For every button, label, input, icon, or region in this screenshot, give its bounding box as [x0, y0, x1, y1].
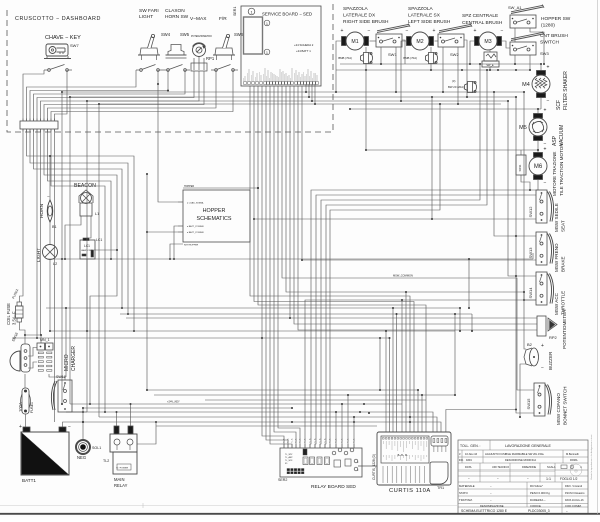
- contact SW5: [163, 65, 190, 72]
- wire RP2 potentiometer trio: [290, 86, 537, 330]
- microswitch SW3 central brush: [510, 32, 568, 56]
- svg-text:M4: M4: [522, 82, 530, 88]
- svg-text:SCHEMATICS: SCHEMATICS: [197, 216, 232, 222]
- microswitch SW15 bonnet: [526, 383, 568, 425]
- svg-text:STATO: STATO: [459, 491, 469, 495]
- svg-text:LEFT SIDE BRUSH: LEFT SIDE BRUSH: [408, 19, 451, 25]
- svg-text:+24 BATT 1: +24 BATT 1: [296, 49, 311, 53]
- wire ladder rung y200: [320, 63, 481, 448]
- svg-text:SWITCH: SWITCH: [540, 40, 559, 46]
- label central brush: [462, 13, 503, 26]
- wire M1 leads: [335, 41, 376, 93]
- wires curtis top signal pins from above: [385, 291, 423, 432]
- svg-text:V−MAX: V−MAX: [190, 16, 207, 22]
- svg-text:SW_E: SW_E: [486, 63, 494, 67]
- svg-text:RELAY: RELAY: [114, 483, 128, 488]
- svg-text:CENTRAL BRUSH: CENTRAL BRUSH: [462, 20, 503, 26]
- label left side brush: [408, 6, 451, 25]
- svg-text:NEG: NEG: [77, 455, 86, 460]
- wire lamp L2 down: [49, 260, 51, 333]
- wire SW3 terminals: [514, 55, 531, 71]
- breaker SW11 for traction: [516, 155, 526, 175]
- bus wires y=92..104 dashboard to right side: [62, 92, 524, 104]
- service board short pin stubs to buses: [305, 85, 316, 106]
- svg-text:TL2: TL2: [103, 459, 109, 463]
- wire beacon leads: [64, 216, 91, 331]
- svg-text:SPZ CENTRALE: SPZ CENTRALE: [462, 13, 498, 19]
- svg-text:1:1: 1:1: [546, 477, 551, 481]
- svg-text:▸ LOAD_SIGNAL: ▸ LOAD_SIGNAL: [187, 202, 205, 205]
- svg-text:B2: B2: [527, 342, 533, 347]
- svg-text:CRUSCOTTO − DASHBOARD: CRUSCOTTO − DASHBOARD: [15, 16, 101, 22]
- breaker BMB(70A) for M2: [403, 52, 437, 63]
- label right side brush: [343, 6, 389, 25]
- svg-text:SW12: SW12: [528, 206, 533, 218]
- battery BATT1: [19, 424, 71, 483]
- svg-text:(3): (3): [452, 79, 455, 83]
- dashboard boundary (dashed): [7, 0, 333, 132]
- wire SW11 stubs: [521, 150, 531, 191]
- beacon L1: [74, 183, 99, 216]
- svg-text:DATA: DATA: [466, 459, 472, 462]
- svg-text:TL_ASP: TL_ASP: [285, 456, 293, 459]
- microswitch SW18 (charger): [51, 375, 72, 412]
- svg-text:SW3: SW3: [540, 51, 549, 56]
- wire M2 leads: [400, 41, 438, 102]
- service board pin bundle descending: [250, 86, 426, 448]
- svg-text:TR1: TR1: [437, 486, 444, 490]
- microswitch SW14 throttle: [528, 272, 566, 315]
- svg-text:+: +: [547, 65, 550, 71]
- svg-text:+: +: [341, 28, 344, 34]
- svg-text:F/R: F/R: [219, 16, 227, 22]
- svg-text:−: −: [68, 424, 71, 430]
- svg-text:SEAT: SEAT: [561, 220, 566, 232]
- motor controller TR1 (CURTIS 110A): [372, 432, 451, 494]
- svg-text:HOPPER SW: HOPPER SW: [541, 16, 571, 22]
- wire SW18 bottom to junction: [66, 411, 84, 413]
- wire right verticals to microswitches: [493, 91, 536, 413]
- wire horn connections: [49, 155, 51, 245]
- svg-text:M2: M2: [416, 39, 423, 45]
- svg-text:SCF: SCF: [556, 100, 562, 110]
- svg-text:DENOMINAZIONE: DENOMINAZIONE: [480, 504, 504, 508]
- wire M3 leads: [469, 41, 510, 65]
- svg-text:SCALA: SCALA: [547, 465, 556, 469]
- microswitch SW12 seat: [528, 190, 566, 232]
- connector MN_S: [37, 338, 53, 371]
- curtis power feed wires B+ B- M-: [66, 403, 517, 432]
- motor M2 left side brush: [406, 28, 436, 50]
- push button SW5 (horn): [165, 8, 190, 58]
- svg-text:L1: L1: [95, 212, 99, 216]
- wire buzzer minus to bus: [519, 364, 526, 418]
- svg-text:POTENTIOMETER: POTENTIOMETER: [562, 309, 567, 349]
- svg-text:MICRO: MICRO: [64, 354, 70, 371]
- svg-text:MSW ACC: MSW ACC: [554, 292, 559, 315]
- wire breaker M1 to bus: [365, 47, 367, 71]
- horn B1: [39, 194, 57, 229]
- bus wires y=64,70 brush motors: [336, 64, 541, 71]
- svg-text:−: −: [468, 477, 470, 481]
- svg-text:DESCRIZIONE MODIFICA: DESCRIZIONE MODIFICA: [505, 458, 536, 462]
- svg-text:SW_A1: SW_A1: [508, 5, 522, 10]
- wire buzzer feed: [286, 86, 526, 349]
- svg-text:BW 20 (20A): BW 20 (20A): [448, 85, 464, 89]
- wire M4 filter shaker leads: [540, 63, 542, 109]
- svg-text:SW11: SW11: [518, 164, 522, 171]
- wire M6 bottom bus y=190 to relay board: [310, 180, 538, 448]
- service board SER1 (SERVICE BOARD - SED): [233, 6, 321, 86]
- svg-text:IND.: IND.: [459, 459, 464, 462]
- svg-text:L2: L2: [53, 262, 57, 266]
- toggle switch SW4 (lights): [138, 8, 171, 60]
- svg-text:+: +: [544, 147, 547, 153]
- contact SW4: [136, 65, 163, 72]
- svg-text:PLDC03005_3: PLDC03005_3: [528, 509, 550, 513]
- dashboard connector CN1: [20, 119, 58, 132]
- microswitch hopper SW_A1: [508, 5, 571, 29]
- svg-text:CLAXON: CLAXON: [165, 8, 185, 14]
- svg-text:1: 1: [250, 11, 252, 15]
- svg-text:1: 1: [266, 51, 268, 55]
- wires relay board top pins from buses: [335, 394, 355, 448]
- svg-text:LATERALE SX: LATERALE SX: [408, 13, 441, 19]
- svg-text:SER1: SER1: [233, 7, 237, 16]
- svg-text:SW14: SW14: [528, 287, 533, 299]
- wire SW16 to MN_S: [28, 348, 37, 369]
- svg-text:B+ B− M−: B+ B− M−: [398, 454, 409, 457]
- svg-text:HOPPER: HOPPER: [203, 208, 226, 214]
- svg-text:+: +: [19, 424, 22, 430]
- label MOTORE TRAZIONE / TRACTION MOTOR: [552, 143, 564, 196]
- fuse FUSE1 100A: [18, 388, 34, 414]
- svg-text:TL_SCF: TL_SCF: [285, 460, 293, 462]
- svg-text:DATA 10-Nov-16: DATA 10-Nov-16: [565, 499, 584, 502]
- contact SW6: [211, 65, 238, 72]
- svg-text:SOL1: SOL1: [92, 446, 101, 450]
- breaker BW20(20A): [448, 79, 477, 93]
- svg-text:DUREZZA.−: DUREZZA.−: [530, 498, 546, 502]
- svg-text:ASP: ASP: [552, 135, 558, 146]
- potentiometer RP1 (V-MAX): [190, 16, 215, 71]
- svg-text:M1: M1: [351, 39, 358, 45]
- solenoid SOL1 / NEG terminal: [76, 440, 101, 460]
- svg-text:BONNET SWITCH: BONNET SWITCH: [563, 387, 568, 425]
- svg-text:KEY/HOPPER: KEY/HOPPER: [184, 245, 199, 247]
- wire bundle dashboard switches to connector: [27, 70, 234, 121]
- svg-text:(1280): (1280): [541, 23, 555, 29]
- wire battery minus to SOL1: [63, 421, 85, 440]
- svg-text:−: −: [47, 194, 50, 199]
- wire SW13 bottom to bundle: [301, 259, 536, 261]
- wire junction to MN_1: [25, 334, 42, 343]
- svg-text:−: −: [501, 28, 504, 34]
- microswitch SW13 brake: [528, 232, 566, 272]
- svg-text:MATERIALE: MATERIALE: [459, 484, 475, 488]
- svg-text:BMB (70A): BMB (70A): [338, 56, 352, 60]
- svg-text:MAIN: MAIN: [114, 477, 124, 482]
- wire fuse1 to battery: [25, 414, 27, 427]
- main relay TL2: [103, 426, 137, 488]
- wire TL2 relay posts: [115, 403, 157, 444]
- svg-text:VACUUM: VACUUM: [559, 125, 565, 146]
- svg-text:MOTORE TRAZIONE: MOTORE TRAZIONE: [552, 152, 557, 197]
- svg-text:CURTIS_1228 (D): CURTIS_1228 (D): [372, 454, 376, 480]
- svg-text:HOPPER: HOPPER: [184, 185, 194, 188]
- svg-text:▸ BATT_POWER: ▸ BATT_POWER: [187, 231, 204, 234]
- long bus wires mid page: [12, 253, 533, 391]
- svg-text:SW7: SW7: [70, 43, 79, 48]
- svg-text:RELAY BOARD SED: RELAY BOARD SED: [311, 484, 356, 490]
- contact SW7: [44, 65, 72, 72]
- svg-text:SPAZZOLA: SPAZZOLA: [343, 6, 369, 12]
- svg-text:M5: M5: [519, 125, 527, 131]
- svg-text:CODICE: CODICE: [530, 504, 541, 508]
- wire claxon common down to hopper load_signal: [157, 70, 178, 202]
- svg-text:FIRMA: FIRMA: [570, 459, 578, 462]
- svg-text:TL−POWER: TL−POWER: [116, 468, 129, 470]
- wire SW14 bottom to relay board: [305, 300, 536, 448]
- wire ladder rung SW12 top: [315, 195, 536, 448]
- wire long verticals left-mid: [61, 91, 148, 417]
- svg-text:DIREZIONE: DIREZIONE: [522, 465, 536, 469]
- wire key switch to connector: [23, 70, 67, 121]
- svg-text:COIL FUSE: COIL FUSE: [6, 303, 11, 325]
- lamp L2 (light): [36, 245, 58, 267]
- wire SW16 bottom to fuse1: [24, 374, 26, 388]
- motor M6 traction: [529, 147, 547, 187]
- svg-text:+: +: [474, 28, 477, 34]
- svg-text:10-Nov-16: 10-Nov-16: [465, 452, 478, 456]
- motor M4 filter shaker: [522, 65, 550, 105]
- svg-text:LIGHT: LIGHT: [139, 14, 153, 20]
- svg-text:▸ BATT_POWER: ▸ BATT_POWER: [187, 225, 204, 228]
- bus y=109 M4 to M5: [349, 108, 541, 114]
- svg-text:POTENZIOMETRO: POTENZIOMETRO: [191, 35, 212, 38]
- svg-text:MSW COFANO: MSW COFANO: [556, 393, 561, 425]
- wire M5 bottom to bus y=150: [365, 70, 539, 153]
- key switch SW7 pictogram: [44, 35, 81, 59]
- svg-text:UFF.TECNICO: UFF.TECNICO: [492, 465, 509, 469]
- wire SW2 terminals: [442, 40, 468, 105]
- svg-text:MSW FRENO: MSW FRENO: [554, 243, 559, 272]
- svg-text:SCHEMA ELETTRICO 1280 E: SCHEMA ELETTRICO 1280 E: [461, 509, 508, 513]
- label MICRO CHARGER: [64, 346, 77, 371]
- microswitch SW2: [438, 24, 472, 57]
- wire LC1 right lead: [94, 249, 118, 251]
- svg-text:1: 1: [266, 22, 268, 26]
- wire SW1 terminals: [380, 40, 405, 93]
- svg-text:SW13: SW13: [528, 247, 533, 259]
- svg-text:RC’follow°: RC’follow°: [530, 484, 543, 488]
- svg-text:M3: M3: [484, 39, 491, 45]
- svg-text:+24 SCHEDA 2: +24 SCHEDA 2: [294, 43, 314, 47]
- svg-text:M.Beninelli: M.Beninelli: [566, 452, 579, 456]
- svg-text:−: −: [544, 181, 547, 187]
- wires right of curtis: [454, 258, 470, 396]
- svg-text:M6: M6: [534, 164, 543, 170]
- svg-text:BMB (70A): BMB (70A): [403, 56, 417, 60]
- svg-text:−: −: [527, 477, 529, 481]
- svg-text:◎: ◎: [574, 468, 578, 473]
- svg-text:COD.COMM.: COD.COMM.: [565, 504, 582, 508]
- svg-text:HORN: HORN: [39, 203, 45, 218]
- wire ladder rung y210: [330, 103, 441, 448]
- svg-text:TRATTAM.: TRATTAM.: [459, 498, 473, 502]
- svg-text:PESO 0.000 Kg: PESO 0.000 Kg: [530, 491, 550, 495]
- svg-text:RP2: RP2: [549, 335, 558, 340]
- wire hopper batt_power feeds: [146, 187, 259, 260]
- potentiometer RP2 (throttle): [537, 309, 567, 349]
- wire left bundle below connector: [20, 129, 136, 422]
- relay board top pins: [283, 438, 356, 448]
- svg-text:SW6: SW6: [234, 32, 244, 37]
- fuse FUSE2 coil fuse 3.5A-F: [6, 288, 23, 325]
- hopper schematics block: [178, 185, 250, 247]
- label ASP VACUUM: [552, 125, 565, 146]
- svg-text:AGGIUNTO FUSIBILE RIARMABILE S: AGGIUNTO FUSIBILE RIARMABILE SW 20L 15AL: [485, 452, 545, 456]
- wire SW_E to bus: [489, 50, 491, 71]
- switch SW16 charger interlock: [10, 332, 30, 372]
- motor M1 right side brush: [341, 28, 371, 50]
- wire ladder rung y205: [325, 69, 488, 448]
- svg-text:SW FARI: SW FARI: [139, 8, 159, 14]
- svg-text:FILTER SHAKER: FILTER SHAKER: [563, 71, 569, 110]
- wire MN_S to SW18 and fuse1: [49, 307, 67, 380]
- svg-text:SPAZZOLA: SPAZZOLA: [408, 6, 434, 12]
- title block: [458, 440, 588, 514]
- svg-text:TL_SPZ: TL_SPZ: [285, 454, 293, 456]
- wire fuse2 bottom to junction: [20, 322, 27, 344]
- toggle switch SW6 (F/R): [213, 16, 244, 60]
- svg-text:−: −: [406, 28, 409, 34]
- svg-text:+: +: [544, 108, 547, 114]
- svg-text:+: +: [433, 28, 436, 34]
- svg-text:Vietata la riproduzione e la d: Vietata la riproduzione e la divulgazion…: [590, 434, 593, 480]
- svg-text:SW5: SW5: [180, 32, 190, 37]
- svg-text:SER2: SER2: [278, 478, 287, 482]
- svg-text:MSW_COMMON: MSW_COMMON: [393, 274, 413, 278]
- svg-text:−: −: [541, 365, 544, 371]
- wire breaker M2 to bus: [430, 47, 432, 71]
- svg-text:MSW SEDILE: MSW SEDILE: [554, 203, 559, 232]
- svg-text:MN_1: MN_1: [40, 338, 50, 342]
- svg-text:SW4: SW4: [161, 32, 171, 37]
- breaker SW_E under M3: [482, 52, 499, 67]
- motor M3 central brush: [474, 28, 504, 50]
- svg-text:RP1: RP1: [206, 56, 215, 61]
- wire MSW_COMMON from service board to SW15: [282, 86, 534, 390]
- svg-text:−: −: [547, 99, 550, 105]
- svg-text:DATA: DATA: [465, 465, 472, 469]
- buzzer B2: [524, 342, 553, 371]
- svg-text:TOLL. GEN. :: TOLL. GEN. :: [460, 444, 481, 448]
- svg-text:BUZZER: BUZZER: [548, 351, 553, 370]
- svg-text:FOGLIO 1/2: FOGLIO 1/2: [560, 477, 578, 481]
- svg-text:BATT1: BATT1: [22, 478, 36, 483]
- breaker BMB(70A) for M1: [338, 52, 372, 63]
- svg-text:CHAVE − KEY: CHAVE − KEY: [45, 35, 81, 41]
- svg-text:RIGHT SIDE BRUSH: RIGHT SIDE BRUSH: [343, 19, 389, 25]
- svg-text:LAVORAZIONE GENERALE: LAVORAZIONE GENERALE: [505, 444, 551, 448]
- label SCF FILTER SHAKER: [556, 71, 569, 110]
- svg-text:−: −: [497, 477, 499, 481]
- wire hopper switch SW_A1: [515, 28, 545, 65]
- motor M5 vacuum: [519, 108, 547, 148]
- svg-text:CHARGER: CHARGER: [71, 346, 77, 371]
- svg-text:BRAKE: BRAKE: [561, 256, 566, 272]
- svg-text:HORN SW: HORN SW: [165, 14, 189, 20]
- service board pin labels: [244, 68, 319, 85]
- wire service board pin to SW13 bottom: [301, 86, 303, 260]
- svg-text:SERVICE BOARD − SED: SERVICE BOARD − SED: [262, 12, 312, 17]
- svg-text:DIM.I. V.Grandi: DIM.I. V.Grandi: [565, 485, 582, 488]
- microswitch SW1: [376, 24, 410, 57]
- bottom bus wires: [70, 389, 455, 409]
- wire SOL1 up: [82, 407, 84, 422]
- svg-text:+: +: [541, 343, 544, 349]
- wire SW12 bottom common: [253, 96, 536, 220]
- svg-text:−: −: [368, 28, 371, 34]
- svg-text:CURTIS 110A: CURTIS 110A: [389, 488, 431, 494]
- svg-text:+24V_KEY: +24V_KEY: [167, 400, 180, 404]
- lamp control LC1: [80, 238, 102, 259]
- svg-text:TILE TRACTION MOTOR: TILE TRACTION MOTOR: [559, 143, 564, 196]
- svg-text:FSCN F.Navastro: FSCN F.Navastro: [565, 492, 585, 495]
- relay board SER2 (RELAY BOARD SED): [278, 448, 377, 490]
- svg-text:SW15: SW15: [526, 398, 531, 410]
- svg-text:LATERALE DX: LATERALE DX: [343, 13, 376, 19]
